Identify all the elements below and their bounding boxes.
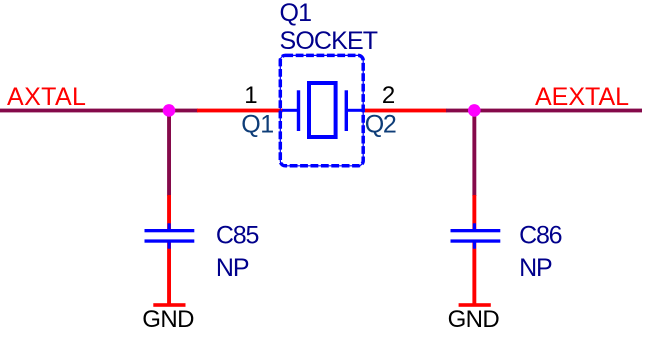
svg-text:SOCKET: SOCKET (280, 27, 378, 55)
wire: left vertical maroon segment below junction (167, 110, 171, 196)
net label AXTAL (7, 83, 86, 111)
ground symbol left (bar) (153, 303, 185, 307)
crystal Q1 pin 1 lead (282, 109, 298, 112)
crystal Q1 pin 2 number (382, 82, 395, 109)
ground label GND left (142, 306, 194, 333)
crystal Q1 left electrode plate (297, 90, 300, 131)
net label AEXTAL (535, 83, 629, 111)
ground label GND right (448, 306, 500, 333)
wire: left vertical red segment from C85 to ground (167, 242, 171, 305)
ground symbol right (bar) (459, 303, 491, 307)
svg-text:Q1: Q1 (280, 0, 312, 27)
wire: right vertical red segment to capacitor C86 (472, 195, 476, 230)
svg-text:2: 2 (382, 82, 395, 109)
junction node left (magenta dot) (163, 104, 176, 117)
wire: AEXTAL horizontal maroon segment (to right end) (446, 109, 642, 113)
wire: red segment from crystal pin 2 rightwards (362, 109, 447, 113)
crystal Q1 value label SOCKET (280, 27, 378, 55)
crystal Q1 reference label (280, 0, 312, 27)
crystal Q1 pin 1 number (244, 82, 257, 109)
capacitor C85 reference label (216, 222, 259, 250)
crystal Q1 pin 2 name (365, 110, 396, 138)
svg-text:Q1: Q1 (241, 110, 273, 138)
capacitor C86 (451, 223, 501, 248)
svg-text:GND: GND (142, 306, 194, 333)
svg-text:C86: C86 (519, 222, 562, 250)
svg-text:NP: NP (519, 254, 552, 282)
crystal Q1 pin 2 lead (347, 109, 363, 112)
wire: right vertical red segment from C86 to ground (472, 242, 476, 305)
wire: AXTAL horizontal maroon segment (left edge to past junction) (0, 109, 198, 113)
crystal Q1 socket dashed outline box (280, 55, 363, 165)
wire: red segment from maroon to crystal pin 1 (197, 109, 283, 113)
svg-text:1: 1 (244, 82, 257, 109)
crystal Q1 body rectangle (309, 83, 336, 137)
svg-text:C85: C85 (216, 222, 259, 250)
capacitor C86 value label NP (519, 254, 552, 282)
capacitor C86 reference label (519, 222, 562, 250)
svg-text:Q2: Q2 (365, 110, 396, 138)
capacitor C85 (145, 223, 195, 248)
junction node right (magenta dot) (468, 104, 481, 117)
svg-text:AXTAL: AXTAL (7, 83, 86, 111)
capacitor C85 value label NP (216, 254, 249, 282)
svg-text:AEXTAL: AEXTAL (535, 83, 629, 111)
wire: right vertical maroon segment below junction (472, 110, 476, 196)
svg-text:NP: NP (216, 254, 249, 282)
crystal Q1 pin 1 name (241, 110, 273, 138)
crystal Q1 right electrode plate (345, 90, 348, 131)
svg-text:GND: GND (448, 306, 500, 333)
wire: left vertical red segment to capacitor C85 (167, 195, 171, 230)
